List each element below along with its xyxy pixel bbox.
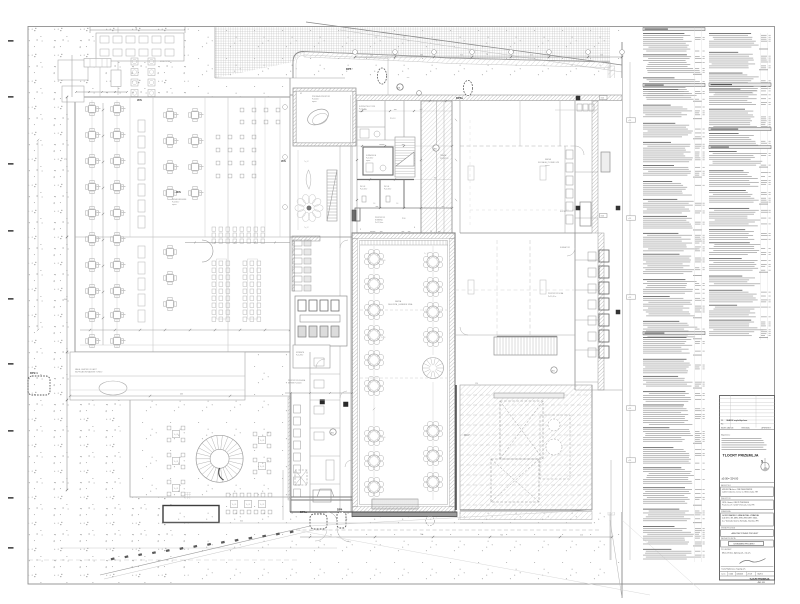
ramp hatched strip — [421, 101, 452, 233]
centre building body — [290, 78, 622, 512]
terrace B SE wall — [291, 496, 352, 498]
benches — [138, 120, 145, 132]
svg-text:740: 740 — [500, 535, 503, 537]
signature — [740, 559, 766, 564]
terrace dashed circles — [546, 439, 562, 455]
K23 wall boxes — [600, 96, 608, 100]
corridor strip — [339, 146, 341, 512]
svg-text:P=2,30m²: P=2,30m² — [360, 188, 368, 191]
svg-text:TLOCRT PRIZEMLJA: TLOCRT PRIZEMLJA — [723, 454, 759, 458]
fence stair diagonal — [100, 526, 310, 575]
terrace B tables — [172, 430, 179, 437]
buffet counter — [84, 59, 111, 68]
svg-text:740: 740 — [420, 534, 423, 536]
upper rooms — [357, 110, 452, 112]
svg-text:Ivana Rajkovaca, mag.ing.arh.: Ivana Rajkovaca, mag.ing.arh. — [722, 569, 747, 571]
svg-text:SERVIS P=9,44m²: SERVIS P=9,44m² — [288, 382, 302, 385]
svg-text:1.6: 1.6 — [396, 203, 398, 205]
lower terrace — [130, 352, 310, 497]
left terrace building — [75, 97, 310, 352]
svg-text:Ta_02: Ta_02 — [304, 161, 309, 163]
svg-text:P=5,28m²: P=5,28m² — [296, 354, 304, 357]
svg-text:kcbr 675 i 88, 6891 2890 2894: kcbr 675 i 88, 6891 2890 2894 2897 4602, — [722, 517, 758, 520]
grid bubbles left — [283, 105, 288, 110]
svg-text:+23: +23 — [628, 120, 631, 122]
svg-text:280: 280 — [420, 55, 423, 57]
mid rooms — [496, 240, 498, 335]
svg-text:S: S — [761, 460, 763, 464]
kitchen equipment — [599, 250, 609, 262]
north arrow — [761, 462, 769, 470]
svg-text:HYDROTA d.o.o. OIB 2960029621: HYDROTA d.o.o. OIB 29600296218 — [722, 488, 752, 491]
dim vertical x611 — [610, 460, 612, 560]
skylight X boxes — [500, 401, 543, 459]
boundary diagonals SE — [296, 530, 650, 595]
dim right plan — [629, 62, 631, 560]
svg-text:OPG: Gazici, OIB 21753670004: OPG: Gazici, OIB 21753670004 — [722, 502, 749, 504]
chair grid — [216, 135, 220, 139]
svg-text:+23: +23 — [628, 218, 631, 220]
spiral stair — [196, 435, 243, 482]
paving mesh top — [215, 27, 610, 78]
title block — [720, 396, 775, 581]
K3 bubble — [397, 84, 403, 90]
ground stipple centre — [188, 27, 622, 583]
shaft — [352, 210, 356, 221]
svg-text:K23: K23 — [601, 216, 604, 218]
square tables grid topleft — [131, 58, 138, 65]
site boundary diagonal — [306, 22, 622, 65]
leaf — [306, 170, 311, 189]
svg-text:DP4: DP4 — [337, 508, 343, 512]
site boundary curve — [293, 52, 610, 97]
svg-text:APKRTEKT: APKRTEKT — [762, 427, 772, 430]
terrace walls — [455, 385, 457, 510]
kitchen fixtures column — [294, 405, 301, 413]
round hall — [352, 233, 455, 512]
svg-text:DP5: DP5 — [346, 67, 352, 71]
svg-text:Napomena:: Napomena: — [721, 435, 731, 437]
bar strip upper content — [293, 240, 302, 246]
stair block — [494, 337, 557, 355]
svg-text:210: 210 — [580, 535, 583, 537]
wc rooms — [357, 179, 414, 181]
svg-text:ARHITEKTONSKI PROJEKT: ARHITEKTONSKI PROJEKT — [732, 532, 760, 535]
svg-text:P=2,30m²: P=2,30m² — [384, 188, 392, 191]
svg-text:+23: +23 — [628, 408, 631, 410]
svg-text:WS: WS — [137, 98, 142, 102]
svg-text:DP5a: DP5a — [456, 96, 463, 100]
svg-text:GOSPODARSKO GRADEVINA - VINARI: GOSPODARSKO GRADEVINA - VINARIJA — [722, 514, 759, 517]
svg-text:PO-1.3: PO-1.3 — [390, 118, 395, 120]
dim bottom — [300, 536, 612, 538]
door arc corridor — [202, 240, 213, 262]
skylight box SW — [295, 470, 307, 485]
kupaonica — [363, 147, 393, 175]
black door squares kitchen — [320, 400, 325, 405]
dim left — [66, 97, 68, 490]
door DP5a — [463, 80, 472, 95]
svg-text:k.o. Vizinada Opcina Vizinada: k.o. Vizinada Opcina Vizinada, Istarska,… — [722, 519, 759, 522]
svg-text:RO-7: RO-7 — [464, 435, 470, 437]
svg-text:Ta_10: Ta_10 — [381, 337, 385, 339]
svg-text:120: 120 — [600, 55, 603, 57]
svg-text:+23: +23 — [628, 297, 631, 299]
upper right hall — [460, 145, 575, 147]
svg-text:74: 74 — [430, 231, 432, 233]
svg-text:Ta_02: Ta_02 — [304, 227, 309, 229]
dim ticks upper rooms — [361, 145, 363, 147]
revision table — [720, 398, 775, 400]
svg-text:P=21,47m²: P=21,47m² — [548, 295, 557, 298]
planter box — [163, 506, 219, 523]
stairs mid — [395, 137, 415, 177]
svg-text:INDEX DATUM: INDEX DATUM — [721, 427, 734, 430]
svg-text:322: 322 — [240, 521, 243, 523]
svg-text:WS: WS — [176, 190, 181, 194]
banquet dim — [185, 242, 320, 244]
svg-text:1:100: 1:100 — [729, 574, 734, 576]
svg-text:DEGUSTA _HUBENJE VINA: DEGUSTA _HUBENJE VINA — [388, 303, 413, 306]
svg-text:TRACIA: TRACIA — [440, 154, 447, 157]
svg-text:23 LV: 23 LV — [748, 574, 753, 576]
svg-text:INVESTITOR: INVESTITOR — [721, 498, 731, 500]
kitchen strip — [574, 233, 576, 390]
dim top-left — [90, 29, 185, 31]
kitchen upper rooms — [559, 101, 561, 146]
svg-text:apres: apres — [366, 159, 370, 162]
svg-text:PROPISTOR SOBA: PROPISTOR SOBA — [548, 292, 564, 295]
svg-text:120: 120 — [475, 383, 478, 385]
sill below terrace — [460, 512, 592, 520]
svg-text:IZVEDBENI PROJEKT: IZVEDBENI PROJEKT — [734, 544, 756, 546]
svg-text:Jablin Dedovina Cesta 3, 23000: Jablin Dedovina Cesta 3, 23000 Zadar, HR — [722, 491, 759, 494]
svg-text:apres: apres — [312, 101, 317, 103]
ground stipple left — [29, 27, 189, 583]
svg-text:+23: +23 — [628, 460, 631, 462]
dim left outer — [37, 140, 39, 330]
svg-text:864/002 asphalt/polona: 864/002 asphalt/polona — [727, 419, 749, 422]
svg-text:345: 345 — [370, 55, 373, 57]
svg-text:Mirza Vinsko, dipl.ing.arh., o: Mirza Vinsko, dipl.ing.arh., ovl.arh. — [722, 552, 751, 555]
service yard — [96, 33, 184, 61]
chairs row bottom — [226, 493, 230, 497]
svg-text:ERGE TIPSK: ERGE TIPSK — [160, 61, 171, 63]
col2 separators — [760, 33, 762, 340]
storage strip — [70, 352, 245, 400]
svg-text:415: 415 — [530, 55, 533, 57]
svg-text:KUHNA TOR: KUHNA TOR — [560, 246, 571, 249]
flower element — [314, 205, 323, 212]
internal dims left building — [102, 103, 104, 345]
svg-text:Paviceva 27, 52447 Vizinada, I: Paviceva 27, 52447 Vizinada, Istra HR — [722, 504, 755, 507]
banquet rows — [212, 227, 216, 231]
svg-text:463: 463 — [180, 394, 183, 396]
svg-text:04/2023: 04/2023 — [737, 574, 744, 576]
svg-text:KUOTA: KUOTA — [560, 210, 567, 213]
entrance arcs — [337, 528, 351, 542]
svg-text:SATRA: SATRA — [395, 300, 402, 303]
svg-text:1.6: 1.6 — [373, 203, 375, 205]
cross tables left — [91, 100, 93, 348]
dim line service — [76, 91, 127, 93]
svg-text:SA PRIJAVOM MAZINKE TONNO: SA PRIJAVOM MAZINKE TONNO — [75, 371, 103, 374]
svg-text:PO6: PO6 — [402, 218, 405, 220]
door arcs — [340, 240, 348, 248]
chair trios — [328, 86, 333, 91]
svg-text:PROSTOR: PROSTOR — [440, 158, 449, 160]
hall spiral — [423, 358, 444, 379]
svg-text:K23: K23 — [601, 98, 604, 100]
svg-text:95: 95 — [330, 535, 332, 537]
svg-text:TLOCRT PRIZEMLJA: TLOCRT PRIZEMLJA — [750, 578, 771, 581]
spec text column 2 — [709, 32, 751, 35]
svg-text:DP2.1: DP2.1 — [30, 371, 38, 375]
M1 bubble — [551, 367, 557, 373]
SE terrace hatched — [460, 385, 592, 510]
svg-text:SATRA: SATRA — [545, 158, 552, 161]
sales room — [293, 88, 356, 146]
spec text column 1 — [643, 28, 705, 31]
svg-text:340: 340 — [64, 299, 67, 301]
top wall band — [345, 95, 622, 101]
kitchen strip SW detail — [293, 345, 330, 368]
rooms strip below bar — [309, 352, 311, 512]
site boundary right — [621, 42, 623, 598]
svg-text:REVIZIJA: REVIZIJA — [742, 427, 751, 430]
svg-text:310: 310 — [460, 55, 463, 57]
fold marks — [8, 40, 14, 42]
door DP5 — [377, 68, 386, 84]
svg-text:DP4a: DP4a — [300, 510, 307, 514]
bar counter cluster — [295, 296, 347, 346]
stair treads corridor — [327, 170, 337, 221]
svg-text:4M3 426: 4M3 426 — [758, 582, 765, 584]
dim top — [355, 56, 622, 58]
svg-text:P=12,50m²: P=12,50m² — [375, 221, 384, 224]
svg-text:6629.1: 6629.1 — [758, 574, 764, 576]
svg-text:Rx: Rx — [721, 424, 723, 426]
hall bottom comb — [371, 499, 373, 509]
hall top comb — [361, 240, 363, 245]
svg-text:SKOSAGE_PLOMNO VIN: SKOSAGE_PLOMNO VIN — [538, 161, 560, 164]
hall bottom dark wall — [352, 512, 457, 517]
round tables — [364, 249, 383, 268]
svg-text:apres: apres — [172, 204, 177, 206]
svg-text:275: 275 — [64, 159, 67, 161]
svg-text:±0.00= 324.00: ±0.00= 324.00 — [722, 477, 739, 481]
svg-text:62: 62 — [300, 93, 302, 95]
svg-text:RL: RL — [721, 420, 723, 422]
hall dim lines — [373, 246, 375, 500]
